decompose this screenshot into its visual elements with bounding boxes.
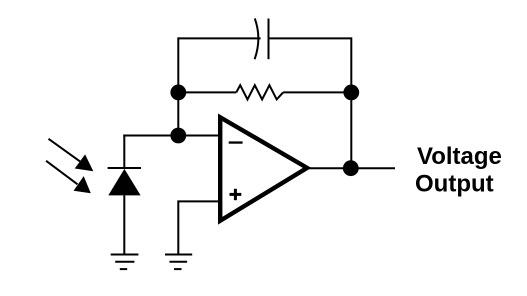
light arrow 2 head bbox=[74, 176, 91, 193]
wire top-left segment (node A column to capacitor) bbox=[178, 37, 260, 39]
wire top-right segment (capacitor to right column) bbox=[269, 37, 352, 39]
node junction dot (right, resistor row) bbox=[343, 85, 359, 101]
light arrow 1 head bbox=[75, 154, 94, 171]
op-amp U1 triangle bbox=[220, 117, 307, 220]
node junction dot (inverting input node) bbox=[170, 128, 186, 144]
wire non-inverting input bbox=[178, 201, 219, 254]
op-amp U1 minus sign bbox=[229, 141, 243, 143]
label Voltage Output bbox=[415, 143, 502, 198]
capacitor C1 curved plate bbox=[255, 19, 259, 60]
wire inverting input row bbox=[123, 135, 219, 137]
resistor R1 bbox=[236, 85, 283, 99]
svg-text:Voltage: Voltage bbox=[417, 143, 502, 170]
wire output row bbox=[306, 167, 395, 169]
svg-text:Output: Output bbox=[415, 170, 494, 197]
wire right feedback vertical bbox=[350, 37, 352, 168]
photodiode D1 cathode bar bbox=[108, 167, 141, 169]
wire left feedback vertical bbox=[177, 37, 179, 135]
ground GND1 (photodiode) bbox=[111, 255, 139, 270]
node junction dot (output node) bbox=[343, 160, 359, 176]
node junction dot (left, resistor row) bbox=[170, 85, 186, 101]
light arrow 2 shaft bbox=[46, 161, 77, 185]
wire resistor row right segment bbox=[283, 91, 351, 93]
wire resistor row left segment bbox=[178, 91, 236, 93]
wire photodiode column lower bbox=[123, 195, 125, 254]
photodiode D1 triangle bbox=[108, 169, 140, 196]
light arrow 1 shaft bbox=[49, 139, 81, 162]
op-amp U1 plus sign bbox=[230, 189, 242, 200]
ground GND2 (op-amp + input) bbox=[165, 255, 192, 270]
wire photodiode column upper bbox=[123, 135, 125, 169]
capacitor C1 straight plate bbox=[268, 19, 270, 60]
